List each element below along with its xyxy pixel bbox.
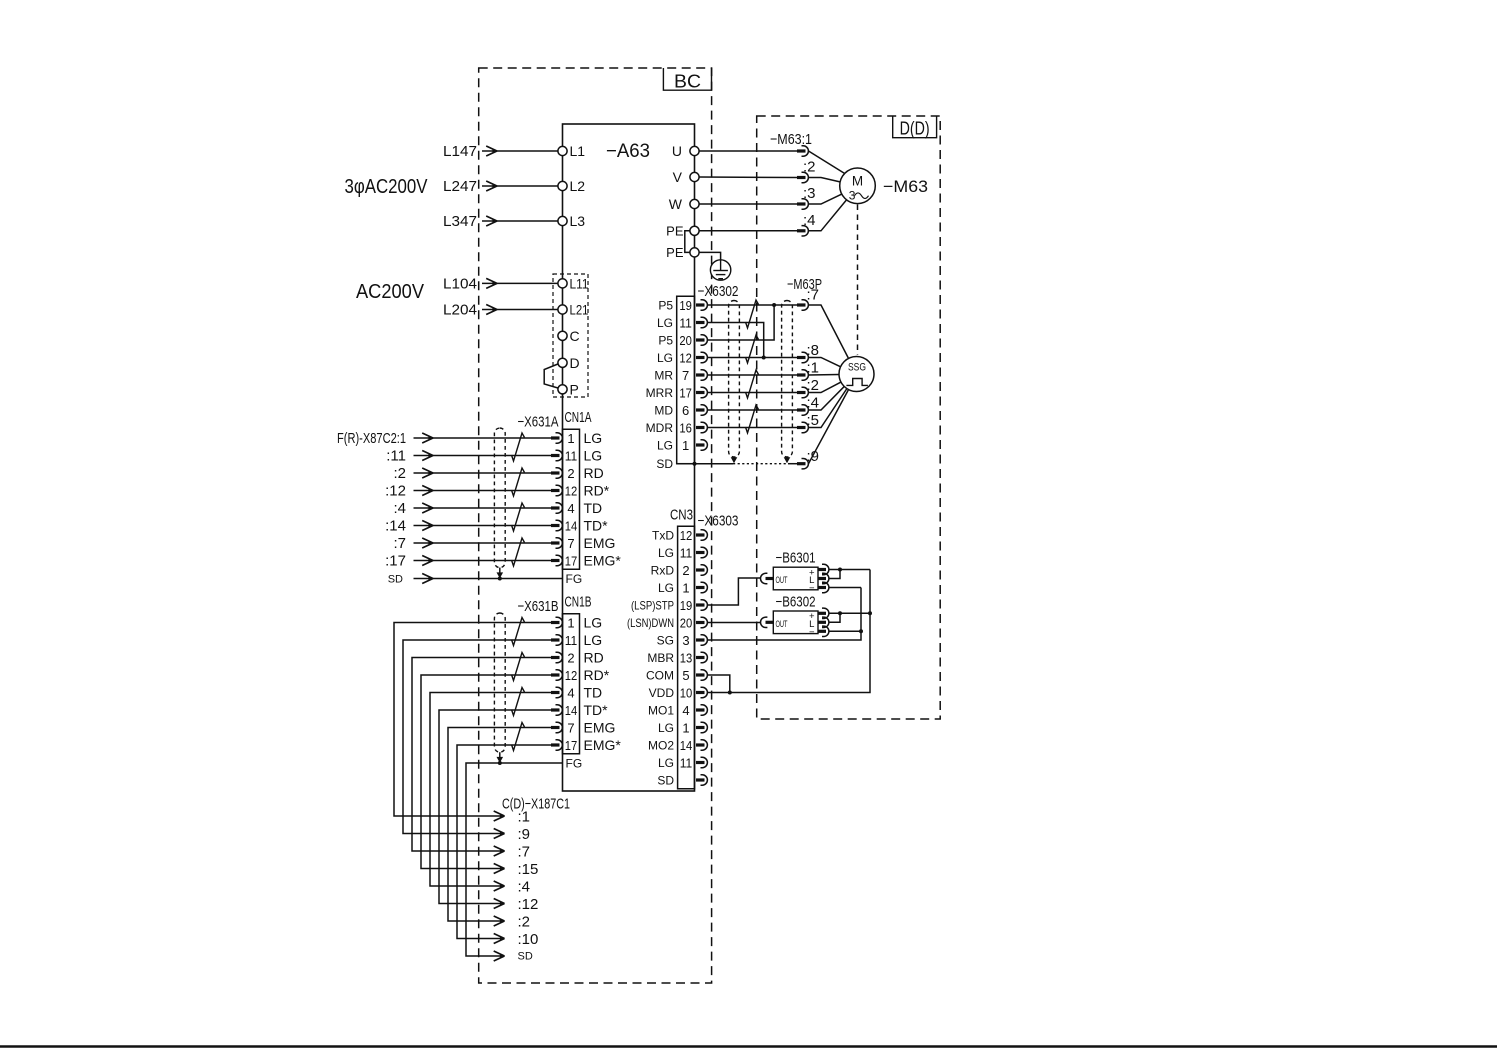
connector pin -M63:2 xyxy=(797,172,808,182)
pin 14 MO2 of CN3 xyxy=(648,738,707,753)
svg-text:−X6303: −X6303 xyxy=(698,513,739,530)
wire input F(R)-X87C2:1 to CN1A pin 1 xyxy=(337,430,552,447)
wire CN1B pin row 11 to output :9 xyxy=(403,640,552,834)
wire MDR 16 to encoder pin :5 xyxy=(708,427,798,429)
wire PE to motor pin :4 xyxy=(699,230,797,232)
connector pin -M63P:1 xyxy=(797,370,808,380)
output arrow :9 xyxy=(494,826,530,843)
wire motor pin :2 to motor xyxy=(809,178,841,183)
svg-text:7: 7 xyxy=(567,536,574,551)
wire encoder pin :1 to SSG xyxy=(809,374,840,377)
pin 19 (LSP)STP of CN3 xyxy=(631,598,707,613)
svg-text:2: 2 xyxy=(567,651,574,666)
junction on pin19 wire xyxy=(772,303,776,307)
wire encoder pin :4 to SSG xyxy=(809,387,844,410)
wire W to motor pin :3 xyxy=(699,203,797,205)
wire shield SD input to FG of CN1A xyxy=(388,574,563,586)
jumper + to L of B6301 xyxy=(829,570,840,579)
svg-text:LG: LG xyxy=(584,615,603,631)
terminal L2 xyxy=(558,178,585,194)
svg-text:11: 11 xyxy=(565,633,578,648)
svg-text:LG: LG xyxy=(658,756,674,770)
pin 4 TD of CN1B xyxy=(551,685,602,701)
terminal L11 xyxy=(558,275,589,291)
svg-text:MDR: MDR xyxy=(646,421,674,435)
twisted pair mark P5/LG xyxy=(746,300,759,328)
svg-text:4: 4 xyxy=(567,501,574,516)
pin 7 EMG of CN1A xyxy=(551,535,615,551)
svg-text:SD: SD xyxy=(388,574,403,586)
wire CN1B pin row 2 to output :7 xyxy=(412,658,552,852)
pin 1 LG of CN1A xyxy=(551,430,602,446)
svg-text:OUT: OUT xyxy=(776,619,788,630)
svg-text:19: 19 xyxy=(680,598,693,613)
pin 6 MD of X6302 xyxy=(654,403,707,418)
cable shield X6302 first xyxy=(729,301,740,458)
svg-text::10: :10 xyxy=(518,931,539,948)
twisted pair mark CN1A pair 2 xyxy=(512,468,525,496)
wire CN1B pin row 1 to output :1 xyxy=(394,623,552,817)
connector block CN1A on A63 xyxy=(563,429,580,569)
brake unit -B6301 box xyxy=(773,567,818,594)
svg-text:C: C xyxy=(570,328,580,344)
svg-text:14: 14 xyxy=(565,703,578,718)
brake unit -B6302 box xyxy=(773,611,818,638)
wire MD 6 to encoder pin :4 xyxy=(708,409,798,411)
jumper bracket PE-PE xyxy=(685,231,690,253)
svg-text:1: 1 xyxy=(567,616,574,631)
svg-text:MRR: MRR xyxy=(646,386,674,400)
svg-text:LG: LG xyxy=(657,439,673,453)
svg-text:F(R)-X87C2:1: F(R)-X87C2:1 xyxy=(337,430,406,447)
svg-text:C(D)−X187C1: C(D)−X187C1 xyxy=(502,796,570,813)
svg-text:RD*: RD* xyxy=(584,483,610,499)
pin 11 LG of X6302 xyxy=(657,316,707,331)
wire input :4 to CN1A pin 4 xyxy=(393,500,552,517)
connector pin -M63P:2 xyxy=(797,387,808,397)
svg-text:SD: SD xyxy=(657,774,674,788)
twisted pair mark CN1B pair 3 xyxy=(512,688,525,716)
svg-text:−: − xyxy=(809,583,815,594)
svg-text:L1: L1 xyxy=(570,143,586,159)
wire V to motor pin :2 xyxy=(699,176,797,179)
svg-text:12: 12 xyxy=(565,668,578,683)
twisted pair mark CN1B pair 2 xyxy=(512,653,525,681)
svg-text:1: 1 xyxy=(682,438,689,453)
svg-text:L2: L2 xyxy=(570,178,586,194)
terminal L21 xyxy=(558,302,589,318)
svg-text:TD*: TD* xyxy=(584,702,609,718)
svg-text:−X631B: −X631B xyxy=(518,598,559,615)
svg-text:−X6302: −X6302 xyxy=(698,283,739,300)
wire input L104 xyxy=(443,275,558,292)
wire MRR 17 to encoder pin :2 xyxy=(708,392,798,394)
twisted pair mark CN1A pair 3 xyxy=(512,503,525,531)
frame BC dashed enclosure xyxy=(479,68,712,983)
svg-text:L204: L204 xyxy=(443,302,477,319)
wire P5 19 to encoder pin :7 xyxy=(708,304,798,306)
output arrow :2 xyxy=(494,914,530,931)
connector pin -M63:3 xyxy=(797,199,808,209)
svg-text::9: :9 xyxy=(518,826,531,843)
svg-text::7: :7 xyxy=(518,844,531,861)
terminal V xyxy=(673,169,699,185)
shield drain X631B xyxy=(497,752,504,765)
pin 17 MRR of X6302 xyxy=(646,386,708,401)
page bottom rule xyxy=(0,1045,1497,1048)
twisted pair mark P5/LG 2 xyxy=(746,335,759,363)
pin 19 P5 of X6302 xyxy=(658,298,707,313)
connector block -X6302 on A63 xyxy=(677,296,695,463)
svg-text:11: 11 xyxy=(680,756,693,771)
pin 16 MDR of X6302 xyxy=(646,421,708,436)
svg-text:−X631A: −X631A xyxy=(518,414,559,431)
junction on pin12 wire xyxy=(762,356,766,360)
svg-text:11: 11 xyxy=(680,546,693,561)
svg-text:FG: FG xyxy=(566,757,583,771)
wire encoder pin :8 to SSG xyxy=(809,358,841,367)
svg-text:13: 13 xyxy=(680,651,693,666)
svg-text:−M63: −M63 xyxy=(883,177,928,196)
connector pin -M63:1 xyxy=(797,146,808,156)
svg-text:MBR: MBR xyxy=(647,651,674,665)
pin 7 MR of X6302 xyxy=(654,368,707,383)
svg-text:17: 17 xyxy=(565,554,578,569)
svg-text::12: :12 xyxy=(385,483,406,500)
svg-text:2: 2 xyxy=(682,563,689,578)
connector pin -M63P:9 xyxy=(797,459,808,469)
svg-text::4: :4 xyxy=(518,879,531,896)
output arrow :10 xyxy=(494,931,539,948)
svg-text:7: 7 xyxy=(682,368,689,383)
pin 12 RD* of CN1B xyxy=(551,667,610,683)
svg-text:TD: TD xyxy=(584,500,603,516)
output pin of B6302 at 613.3 xyxy=(818,608,829,618)
wire PE to protective earth xyxy=(699,252,721,259)
wire input :7 to CN1A pin 7 xyxy=(393,535,552,552)
svg-text:PE: PE xyxy=(666,245,684,260)
svg-text:OUT: OUT xyxy=(776,575,788,586)
svg-text:U: U xyxy=(672,143,682,159)
pin 1 LG of X6302 xyxy=(657,438,707,453)
terminal P xyxy=(558,381,579,397)
twisted pair mark CN1A pair 4 xyxy=(512,538,525,566)
pin 1 LG of CN1B xyxy=(551,615,602,631)
svg-text:EMG*: EMG* xyxy=(584,737,622,753)
svg-text:PE: PE xyxy=(666,223,684,238)
svg-text:RD: RD xyxy=(584,465,604,481)
connector pin -M63P:7 xyxy=(797,300,808,310)
output arrow SD xyxy=(494,951,533,963)
wire encoder pin :7 to SSG xyxy=(809,305,849,358)
junction B6302 + on rail xyxy=(868,611,872,615)
svg-text:RD*: RD* xyxy=(584,667,610,683)
terminal U xyxy=(672,143,699,159)
svg-text:12: 12 xyxy=(565,484,578,499)
output pin of B6301 at 569.5 xyxy=(818,564,829,574)
svg-text:−B6302: −B6302 xyxy=(776,594,816,611)
terminal PE xyxy=(666,223,699,238)
wire input :14 to CN1A pin 14 xyxy=(385,518,552,535)
wire SD shield to encoder pin :9 xyxy=(677,463,798,465)
terminal C xyxy=(558,328,580,344)
pin 11 LG of CN3 xyxy=(658,546,707,561)
svg-text:L21: L21 xyxy=(570,302,589,318)
svg-text:TD: TD xyxy=(584,685,603,701)
svg-text:3φAC200V: 3φAC200V xyxy=(345,176,429,198)
svg-text:W: W xyxy=(669,196,683,212)
wire U to motor pin :1 xyxy=(699,150,797,152)
servo amplifier A63 outline xyxy=(563,124,695,791)
svg-text:L347: L347 xyxy=(443,213,477,230)
wire encoder pin :2 to SSG xyxy=(809,382,841,392)
pin 13 MBR of CN3 xyxy=(647,651,707,666)
svg-text::7: :7 xyxy=(807,287,820,304)
shield drain X631A xyxy=(497,568,504,581)
svg-text:L104: L104 xyxy=(443,275,477,292)
svg-text:P: P xyxy=(570,381,579,397)
pin 20 (LSN)DWN of CN3 xyxy=(627,616,707,631)
svg-text:P5: P5 xyxy=(658,334,673,348)
jumper P5 20 to P5 19 xyxy=(708,305,775,340)
motor M1 symbol -M63 xyxy=(840,168,876,204)
output arrow :7 xyxy=(494,844,530,861)
svg-text:MO1: MO1 xyxy=(648,704,674,718)
svg-text:19: 19 xyxy=(679,298,692,313)
wire B6301 - to SG rail xyxy=(829,587,861,589)
svg-text:EMG: EMG xyxy=(584,535,616,551)
wire input :2 to CN1A pin 2 xyxy=(393,465,552,482)
wire SG 3 to brake minus rail xyxy=(708,588,862,641)
terminal block L11-P dashed outline xyxy=(553,274,588,397)
svg-text:AC200V: AC200V xyxy=(356,281,425,303)
jumper LG 11 to LG 12 xyxy=(708,323,764,358)
junction on + wire of B6302 xyxy=(838,611,842,615)
pin 3 SG of CN3 xyxy=(657,633,708,648)
svg-text:EMG: EMG xyxy=(584,720,616,736)
svg-text:(LSP)STP: (LSP)STP xyxy=(631,599,674,613)
pin 2 RD of CN1B xyxy=(551,650,604,666)
label box BC xyxy=(663,68,711,92)
output pin of B6302 at 631.3 xyxy=(818,626,829,636)
svg-text:12: 12 xyxy=(679,351,692,366)
svg-text:−B6301: −B6301 xyxy=(776,550,816,567)
wire CN1B pin row 7 to output :2 xyxy=(448,728,552,922)
twisted pair mark CN1A pair 1 xyxy=(512,433,525,461)
terminal D xyxy=(558,355,580,371)
svg-text:20: 20 xyxy=(679,333,692,348)
svg-text::12: :12 xyxy=(518,896,539,913)
wire STP 19 to B6301 input xyxy=(708,578,761,605)
pin 17 EMG* of CN1A xyxy=(551,553,621,569)
svg-text:(LSN)DWN: (LSN)DWN xyxy=(627,616,674,630)
junction B6302 - on rail xyxy=(859,629,863,633)
svg-text:LG: LG xyxy=(657,316,673,330)
cable shield X631A xyxy=(494,428,505,568)
pin 20 P5 of X6302 xyxy=(658,333,707,348)
pin 12 LG of X6302 xyxy=(657,351,707,366)
wire FG of CN1B to output SD xyxy=(466,763,563,956)
pin 12 RD* of CN1A xyxy=(551,483,610,499)
wire CN1B pin row 14 to output :12 xyxy=(439,710,552,904)
pin 4 TD of CN1A xyxy=(551,500,602,516)
terminal PE xyxy=(666,245,699,260)
svg-text::2: :2 xyxy=(393,465,406,482)
svg-text:16: 16 xyxy=(679,421,692,436)
junction COM on VDD wire xyxy=(728,691,732,695)
output arrow :15 xyxy=(494,861,539,878)
svg-text:LG: LG xyxy=(657,351,673,365)
wire motor pin :3 to motor xyxy=(809,194,842,204)
svg-text::7: :7 xyxy=(393,535,406,552)
wire B6301 + to VDD rail xyxy=(829,569,870,571)
svg-text:14: 14 xyxy=(565,519,578,534)
svg-text:LG: LG xyxy=(658,546,674,560)
label box D(D) xyxy=(893,116,937,139)
svg-text:−A63: −A63 xyxy=(606,141,650,162)
svg-text:SSG: SSG xyxy=(848,362,866,374)
input pin of B6301 xyxy=(760,573,773,583)
jumper wire D-P xyxy=(544,364,558,388)
svg-text:P5: P5 xyxy=(658,299,673,313)
svg-text:SG: SG xyxy=(657,634,674,648)
svg-text:4: 4 xyxy=(567,686,574,701)
cable shield X631B xyxy=(494,613,505,752)
twisted pair mark CN1B pair 1 xyxy=(512,618,525,646)
twisted pair mark MD/MDR xyxy=(746,405,759,433)
wire encoder pin :5 to SSG xyxy=(809,389,847,428)
encoder SSG symbol xyxy=(839,357,874,392)
svg-text:COM: COM xyxy=(646,669,674,683)
wire DWN 20 to B6302 input xyxy=(708,622,761,624)
output pin of B6301 at 587.5 xyxy=(818,582,829,592)
connector pin -M63P:8 xyxy=(797,352,808,362)
pin 14 TD* of CN1A xyxy=(551,518,608,534)
wire input L204 xyxy=(443,302,558,319)
svg-text:−M63:1: −M63:1 xyxy=(770,131,812,148)
svg-text:LG: LG xyxy=(584,632,603,648)
svg-text:D(D): D(D) xyxy=(900,119,930,139)
svg-text:MR: MR xyxy=(654,369,673,383)
wire motor pin :1 to motor xyxy=(809,151,845,174)
output arrow :4 xyxy=(494,879,530,896)
svg-text:5: 5 xyxy=(682,668,689,683)
svg-text:L3: L3 xyxy=(570,213,586,229)
svg-text:RD: RD xyxy=(584,650,604,666)
pin 11 LG of CN1B xyxy=(551,632,602,648)
svg-text:4: 4 xyxy=(682,703,689,718)
svg-text:L147: L147 xyxy=(443,143,477,160)
wire input :17 to CN1A pin 17 xyxy=(385,553,552,570)
cable shield X6302 second xyxy=(782,301,793,458)
pin 1 LG of CN3 xyxy=(658,721,707,736)
jumper + to L of B6302 xyxy=(829,613,840,622)
output pin of B6301 at 578.5 xyxy=(818,573,829,583)
svg-text:17: 17 xyxy=(565,738,578,753)
svg-text:7: 7 xyxy=(567,721,574,736)
svg-text:VDD: VDD xyxy=(649,686,675,700)
svg-text:20: 20 xyxy=(680,616,693,631)
wire LG 12 to encoder pin :8 xyxy=(708,357,798,359)
pin 10 VDD of CN3 xyxy=(649,686,708,701)
svg-text:EMG*: EMG* xyxy=(584,553,622,569)
svg-text:CN1A: CN1A xyxy=(565,409,592,426)
input pin of B6302 xyxy=(760,617,773,627)
svg-text:LG: LG xyxy=(584,430,603,446)
svg-text:11: 11 xyxy=(565,449,578,464)
svg-text:FG: FG xyxy=(566,572,583,586)
connector pin -M63P:5 xyxy=(797,422,808,432)
wire VDD 10 to brake plus rail xyxy=(708,570,871,693)
svg-text:2: 2 xyxy=(567,466,574,481)
junction SD at A63 edge xyxy=(693,462,697,466)
output pin of B6302 at 622.3 xyxy=(818,617,829,627)
svg-text:11: 11 xyxy=(679,316,692,331)
svg-text:L11: L11 xyxy=(570,275,589,291)
wire input :12 to CN1A pin 12 xyxy=(385,483,552,500)
output arrow :1 xyxy=(494,809,530,826)
connector pin -M63P:4 xyxy=(797,405,808,415)
svg-text:SD: SD xyxy=(518,951,533,963)
svg-text:CN3: CN3 xyxy=(670,507,693,524)
svg-text::2: :2 xyxy=(518,914,531,931)
svg-text:MO2: MO2 xyxy=(648,739,674,753)
pin 14 TD* of CN1B xyxy=(551,702,608,718)
svg-text:1: 1 xyxy=(567,431,574,446)
wire input :11 to CN1A pin 11 xyxy=(386,448,552,465)
terminal L1 xyxy=(558,143,585,159)
svg-text:17: 17 xyxy=(679,386,692,401)
svg-text:MD: MD xyxy=(654,404,673,418)
svg-text:D: D xyxy=(570,355,580,371)
pin 11 LG of CN1A xyxy=(551,448,602,464)
svg-text::17: :17 xyxy=(385,553,406,570)
svg-text:RxD: RxD xyxy=(651,564,675,578)
svg-text:1: 1 xyxy=(682,721,689,736)
wire input L247 xyxy=(443,178,558,195)
junction on + wire of B6301 xyxy=(838,568,842,572)
wire CN1B pin row 17 to output :10 xyxy=(457,745,552,939)
pin 2 RD of CN1A xyxy=(551,465,604,481)
wire MR 7 to encoder pin :1 xyxy=(708,374,798,376)
svg-text:6: 6 xyxy=(682,403,689,418)
pin SD SD of CN3 xyxy=(657,774,707,788)
pin 2 RxD of CN3 xyxy=(651,563,708,578)
connector block CN1B on A63 xyxy=(563,614,580,754)
frame D(D) dashed enclosure xyxy=(757,116,941,719)
wire B6302 + to VDD rail xyxy=(829,612,870,614)
pin 5 COM of CN3 xyxy=(646,668,707,683)
svg-text:1: 1 xyxy=(682,581,689,596)
svg-text:CN1B: CN1B xyxy=(565,594,592,611)
pin 1 LG of CN3 xyxy=(658,581,707,596)
pin 12 TxD of CN3 xyxy=(652,528,707,543)
svg-text:TD*: TD* xyxy=(584,518,609,534)
shield drain arrow second xyxy=(784,457,791,463)
output arrow :12 xyxy=(494,896,539,913)
svg-text:SD: SD xyxy=(656,457,673,471)
svg-text:−: − xyxy=(809,627,815,638)
svg-text:M: M xyxy=(852,174,863,189)
svg-text::14: :14 xyxy=(385,518,406,535)
svg-text:LG: LG xyxy=(658,581,674,595)
svg-text:3: 3 xyxy=(682,633,689,648)
svg-text::4: :4 xyxy=(393,500,406,517)
svg-text:LG: LG xyxy=(584,448,603,464)
wire input L347 xyxy=(443,213,558,230)
svg-text:BC: BC xyxy=(674,72,701,92)
svg-text:L247: L247 xyxy=(443,178,477,195)
